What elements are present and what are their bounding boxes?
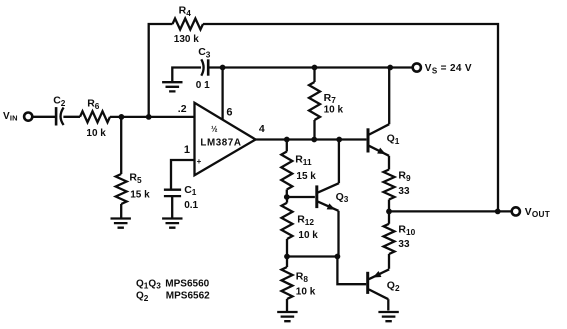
svg-text:130 k: 130 k: [174, 34, 199, 45]
svg-text:LM387A: LM387A: [200, 137, 241, 148]
svg-text:10 k: 10 k: [298, 230, 318, 241]
svg-text:Q1Q3 MPS6560: Q1Q3 MPS6560: [136, 278, 210, 290]
svg-text:0.1: 0.1: [184, 200, 198, 211]
svg-text:Q2MPS6562: Q2MPS6562: [136, 291, 210, 303]
svg-text:15 k: 15 k: [296, 171, 316, 182]
svg-text:0 1: 0 1: [196, 80, 210, 91]
svg-text:½: ½: [211, 124, 218, 133]
svg-text:+: +: [197, 157, 202, 166]
svg-text:33: 33: [398, 239, 410, 250]
svg-text:6: 6: [226, 107, 232, 119]
svg-text:10 k: 10 k: [324, 104, 344, 115]
svg-text:.2: .2: [178, 103, 187, 115]
svg-text:33: 33: [398, 186, 410, 197]
svg-text:10 k: 10 k: [296, 287, 316, 298]
svg-text:15 k: 15 k: [130, 190, 150, 201]
svg-text:10 k: 10 k: [86, 128, 106, 139]
svg-text:4: 4: [259, 123, 265, 135]
svg-text:1: 1: [184, 144, 190, 156]
